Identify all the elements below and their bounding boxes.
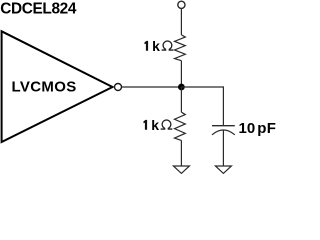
svg-text:CDCEL824: CDCEL824 bbox=[0, 0, 77, 17]
svg-text:LVCMOS: LVCMOS bbox=[12, 79, 77, 96]
ground (right, below capacitor) bbox=[215, 166, 231, 173]
node A junction dot bbox=[178, 84, 185, 91]
wire R2 to ground bbox=[180, 140, 182, 166]
resistor R1 1 kOhm (top) bbox=[175, 35, 186, 61]
terminal (open circle, top) bbox=[178, 1, 185, 8]
wire bubble to node A bbox=[122, 86, 182, 88]
ground (left, below R2) bbox=[173, 166, 189, 173]
capacitor C1 top plate bbox=[212, 125, 235, 127]
wire terminal to R1 bbox=[180, 8, 182, 35]
resistor R2 1 kOhm (bottom) bbox=[175, 112, 186, 140]
svg-text:10 pF: 10 pF bbox=[239, 120, 277, 137]
wire node A to capacitor branch bbox=[181, 87, 223, 125]
inverter output bubble bbox=[115, 84, 122, 91]
svg-text:k: k bbox=[151, 117, 159, 133]
op-amp U1 buffer triangle LVCMOS bbox=[2, 31, 113, 142]
value label 1 kOhm (top) bbox=[145, 41, 149, 51]
svg-text:k: k bbox=[152, 38, 160, 54]
value label 1 kOhm (bottom) bbox=[144, 120, 148, 130]
ohm symbol (bottom) bbox=[161, 120, 173, 129]
capacitor C1 bottom plate (curved) bbox=[212, 130, 235, 135]
ohm symbol (top) bbox=[162, 41, 174, 50]
wire node A to R2 bbox=[180, 87, 182, 112]
wire capacitor to ground bbox=[222, 130, 224, 166]
wire R1 to node A bbox=[180, 61, 182, 87]
